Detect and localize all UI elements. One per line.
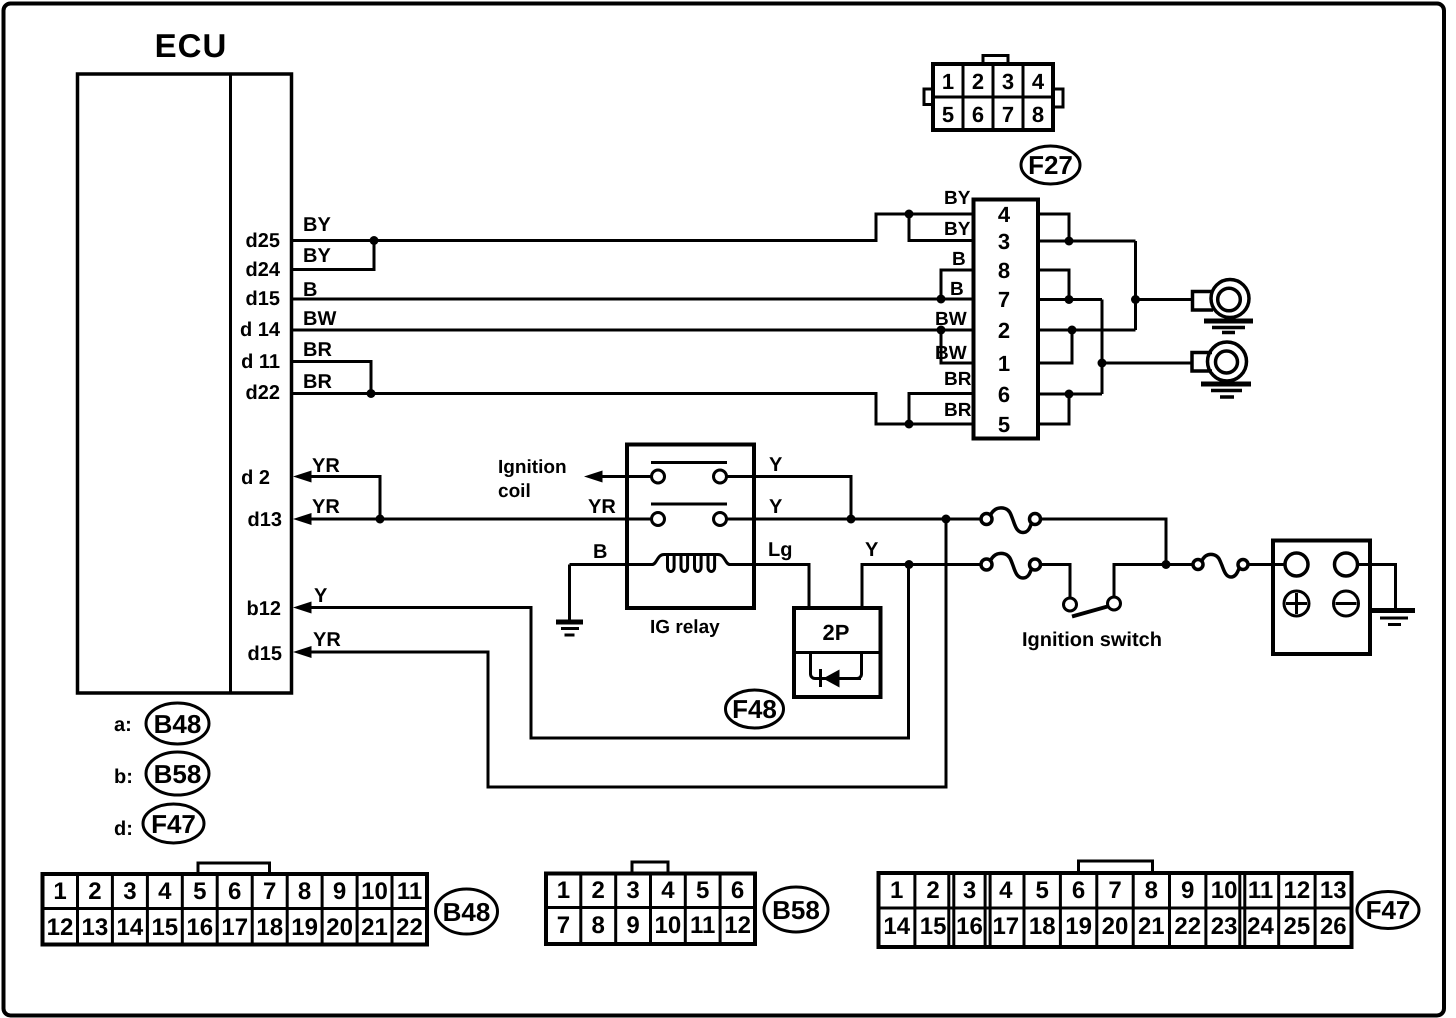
svg-text:16: 16 [186, 914, 213, 941]
svg-text:IG relay: IG relay [650, 617, 720, 638]
svg-text:BR: BR [944, 400, 972, 421]
svg-text:5: 5 [193, 878, 206, 905]
svg-text:5: 5 [942, 102, 954, 127]
svg-text:d15: d15 [248, 643, 282, 665]
svg-text:2: 2 [972, 69, 984, 94]
svg-text:d24: d24 [246, 259, 281, 281]
svg-text:6: 6 [972, 102, 984, 127]
svg-text:18: 18 [256, 914, 283, 941]
svg-text:3: 3 [626, 877, 639, 904]
svg-text:coil: coil [498, 481, 531, 502]
svg-text:17: 17 [992, 913, 1019, 940]
svg-text:BY: BY [303, 214, 331, 236]
svg-text:BY: BY [303, 245, 331, 267]
svg-text:B48: B48 [154, 709, 202, 739]
svg-text:3: 3 [1002, 69, 1014, 94]
svg-text:17: 17 [221, 914, 248, 941]
svg-text:7: 7 [263, 878, 276, 905]
svg-text:3: 3 [963, 877, 976, 904]
svg-text:15: 15 [920, 913, 947, 940]
svg-text:Y: Y [769, 454, 783, 476]
svg-text:6: 6 [998, 382, 1010, 407]
svg-text:2: 2 [998, 318, 1010, 343]
svg-text:9: 9 [333, 878, 346, 905]
svg-text:Lg: Lg [768, 539, 792, 561]
svg-text:BW: BW [303, 308, 336, 330]
svg-text:4: 4 [158, 878, 172, 905]
svg-text:5: 5 [1036, 877, 1049, 904]
svg-text:25: 25 [1284, 913, 1311, 940]
svg-text:B: B [950, 279, 964, 300]
svg-text:20: 20 [326, 914, 353, 941]
svg-text:BR: BR [944, 369, 972, 390]
svg-text:Ignition: Ignition [498, 457, 567, 478]
svg-text:4: 4 [1032, 69, 1045, 94]
svg-text:6: 6 [1072, 877, 1085, 904]
svg-text:2: 2 [926, 877, 939, 904]
svg-text:a:: a: [114, 714, 132, 736]
svg-text:13: 13 [1320, 877, 1347, 904]
svg-text:3: 3 [998, 229, 1010, 254]
svg-text:BY: BY [944, 188, 971, 209]
svg-text:2: 2 [88, 878, 101, 905]
svg-text:b:: b: [114, 766, 133, 788]
svg-text:BR: BR [303, 339, 332, 361]
svg-text:9: 9 [1181, 877, 1194, 904]
svg-text:d:: d: [114, 818, 133, 840]
svg-text:YR: YR [312, 455, 340, 477]
svg-text:8: 8 [298, 878, 311, 905]
svg-text:6: 6 [228, 878, 241, 905]
svg-text:1: 1 [998, 351, 1010, 376]
svg-text:13: 13 [82, 914, 109, 941]
svg-text:18: 18 [1029, 913, 1056, 940]
svg-text:8: 8 [1032, 102, 1044, 127]
svg-text:1: 1 [890, 877, 903, 904]
svg-text:B: B [952, 249, 966, 270]
svg-text:d15: d15 [246, 288, 280, 310]
svg-text:B: B [593, 541, 607, 563]
svg-text:20: 20 [1102, 913, 1129, 940]
svg-text:12: 12 [724, 912, 751, 939]
svg-text:14: 14 [883, 913, 910, 940]
svg-text:Y: Y [769, 496, 783, 518]
svg-text:7: 7 [1108, 877, 1121, 904]
svg-text:YR: YR [313, 629, 341, 651]
svg-text:1: 1 [53, 878, 66, 905]
svg-text:19: 19 [291, 914, 318, 941]
svg-text:BY: BY [944, 219, 971, 240]
svg-text:23: 23 [1211, 913, 1238, 940]
svg-text:11: 11 [397, 878, 422, 905]
svg-text:B58: B58 [772, 895, 820, 925]
svg-text:4: 4 [661, 877, 675, 904]
svg-text:24: 24 [1247, 913, 1274, 940]
svg-text:d 11: d 11 [241, 351, 280, 373]
svg-text:4: 4 [998, 202, 1011, 227]
svg-text:1: 1 [557, 877, 570, 904]
svg-text:Ignition switch: Ignition switch [1022, 629, 1162, 651]
svg-text:6: 6 [731, 877, 744, 904]
svg-text:Y: Y [865, 539, 879, 561]
svg-text:8: 8 [592, 912, 605, 939]
svg-text:16: 16 [956, 913, 983, 940]
svg-text:BR: BR [303, 371, 332, 393]
svg-text:Y: Y [314, 585, 328, 607]
svg-text:26: 26 [1320, 913, 1347, 940]
svg-text:3: 3 [123, 878, 136, 905]
svg-text:BW: BW [935, 343, 967, 364]
svg-text:BW: BW [935, 309, 967, 330]
svg-text:1: 1 [942, 69, 954, 94]
svg-text:5: 5 [998, 412, 1010, 437]
svg-text:4: 4 [999, 877, 1013, 904]
svg-text:22: 22 [1174, 913, 1201, 940]
svg-text:YR: YR [588, 496, 616, 518]
svg-text:19: 19 [1065, 913, 1092, 940]
svg-text:11: 11 [1248, 877, 1273, 904]
svg-text:d 2: d 2 [241, 467, 270, 489]
svg-text:10: 10 [655, 912, 682, 939]
svg-text:7: 7 [1002, 102, 1014, 127]
svg-text:8: 8 [998, 258, 1010, 283]
svg-text:10: 10 [361, 878, 388, 905]
svg-text:d25: d25 [246, 230, 280, 252]
svg-text:22: 22 [396, 914, 423, 941]
svg-text:12: 12 [1284, 877, 1311, 904]
svg-text:21: 21 [1138, 913, 1165, 940]
svg-text:b12: b12 [247, 598, 281, 620]
svg-text:15: 15 [151, 914, 178, 941]
svg-text:B48: B48 [443, 897, 491, 927]
svg-text:F47: F47 [1366, 895, 1411, 925]
svg-text:10: 10 [1211, 877, 1238, 904]
svg-text:9: 9 [626, 912, 639, 939]
svg-text:d13: d13 [248, 509, 282, 531]
svg-text:21: 21 [361, 914, 388, 941]
svg-text:ECU: ECU [155, 27, 228, 64]
svg-text:F47: F47 [151, 809, 196, 839]
svg-text:12: 12 [47, 914, 74, 941]
svg-text:14: 14 [117, 914, 144, 941]
svg-text:2P: 2P [823, 620, 850, 645]
svg-text:B58: B58 [154, 759, 202, 789]
svg-text:d 14: d 14 [240, 319, 281, 341]
svg-text:2: 2 [592, 877, 605, 904]
svg-text:F27: F27 [1028, 150, 1073, 180]
svg-text:YR: YR [312, 496, 340, 518]
svg-text:F48: F48 [732, 694, 777, 724]
svg-text:d22: d22 [246, 382, 280, 404]
svg-text:5: 5 [696, 877, 709, 904]
svg-text:8: 8 [1145, 877, 1158, 904]
svg-text:7: 7 [557, 912, 570, 939]
svg-text:7: 7 [998, 287, 1010, 312]
svg-text:11: 11 [690, 912, 715, 939]
